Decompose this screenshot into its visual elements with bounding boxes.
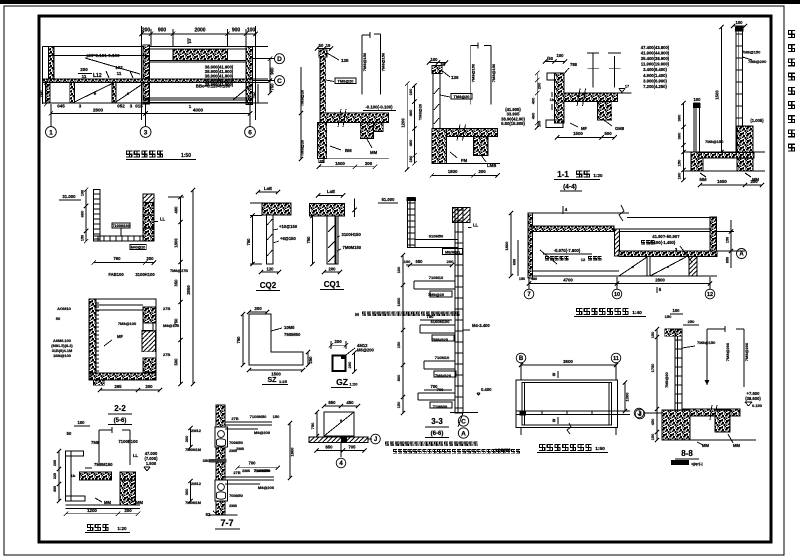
svg-text:7: 7 bbox=[527, 292, 531, 298]
J right dim bbox=[353, 353, 355, 372]
svg-text:10: 10 bbox=[614, 292, 620, 298]
svg-text:300: 300 bbox=[184, 436, 189, 443]
C wall outline bbox=[433, 74, 440, 129]
svg-text:400: 400 bbox=[531, 113, 536, 120]
svg-text:200: 200 bbox=[750, 179, 758, 184]
svg-text:51.000: 51.000 bbox=[382, 197, 395, 202]
svg-text:1:20: 1:20 bbox=[349, 382, 358, 387]
svg-text:e: e bbox=[667, 264, 670, 269]
H right ext line bbox=[354, 199, 356, 218]
E tall wall outline bbox=[736, 27, 743, 152]
svg-text:16M@100: 16M@100 bbox=[53, 353, 71, 358]
svg-text:27B: 27B bbox=[163, 306, 170, 311]
axis circle 1 bbox=[46, 127, 57, 138]
F lower box outline bbox=[91, 299, 156, 380]
svg-text:600: 600 bbox=[513, 259, 517, 265]
svg-text:015: 015 bbox=[135, 104, 143, 109]
F upper wall rungs bbox=[94, 193, 100, 195]
svg-text:045: 045 bbox=[57, 104, 65, 109]
77 right dim bbox=[289, 423, 291, 478]
H top hatch band bbox=[309, 204, 344, 216]
C rebar bracket 1 bbox=[470, 45, 472, 104]
O break mark bottom bbox=[567, 423, 571, 434]
svg-text:(1.005): (1.005) bbox=[750, 118, 764, 123]
D slab break marks bbox=[577, 89, 580, 106]
svg-text:7M8@20: 7M8@20 bbox=[664, 372, 669, 388]
N top line bbox=[528, 212, 629, 214]
svg-text:LaE: LaE bbox=[327, 189, 335, 194]
svg-text:L2@200: L2@200 bbox=[495, 447, 511, 452]
O mid band ticks bbox=[541, 411, 543, 415]
O balcony rect inner bbox=[522, 383, 612, 426]
svg-text:1000: 1000 bbox=[396, 298, 401, 307]
svg-text:500: 500 bbox=[604, 131, 612, 136]
svg-text:27B: 27B bbox=[233, 470, 240, 475]
B wall hatched column bbox=[320, 57, 326, 123]
N axis extensions bbox=[528, 277, 530, 289]
svg-text:1750: 1750 bbox=[650, 364, 655, 373]
svg-text:400: 400 bbox=[408, 109, 413, 116]
svg-text:19: 19 bbox=[326, 43, 331, 48]
F upper col inner lines bbox=[143, 214, 154, 216]
svg-text:FM: FM bbox=[461, 158, 468, 163]
svg-text:6: 6 bbox=[248, 129, 252, 136]
I left dim bbox=[242, 314, 244, 365]
svg-text:3100H150: 3100H150 bbox=[342, 232, 362, 237]
svg-text:2000: 2000 bbox=[194, 28, 205, 34]
svg-text:300: 300 bbox=[677, 114, 682, 121]
P rebar bracket right 2 bbox=[743, 329, 745, 387]
B rebar bracket 2 bbox=[380, 34, 382, 95]
svg-text:LL: LL bbox=[473, 223, 479, 228]
P wall double line bbox=[675, 329, 682, 410]
svg-text:11: 11 bbox=[613, 356, 619, 362]
svg-text:200: 200 bbox=[334, 339, 342, 344]
F lower left wall rungs bbox=[96, 302, 99, 304]
plan extension verticals bbox=[141, 26, 143, 120]
E tall wall cap bbox=[735, 27, 744, 32]
F upper bottom dim bbox=[94, 262, 154, 264]
N left wall strip bbox=[528, 213, 533, 278]
svg-text:J: J bbox=[637, 411, 640, 417]
svg-text:1:50: 1:50 bbox=[181, 153, 191, 159]
svg-text:200: 200 bbox=[254, 306, 262, 311]
I right dim 250 bbox=[307, 352, 309, 365]
svg-text:MM: MM bbox=[104, 500, 111, 505]
C bottom dim bbox=[432, 174, 498, 176]
77 beam block 1 bbox=[215, 427, 228, 447]
svg-text:(6-6): (6-6) bbox=[431, 431, 444, 437]
svg-text:200: 200 bbox=[347, 361, 352, 368]
svg-text:100: 100 bbox=[408, 155, 413, 162]
svg-text:900: 900 bbox=[270, 67, 275, 75]
title 1-1 text bbox=[576, 171, 582, 178]
svg-text:120: 120 bbox=[267, 267, 275, 272]
svg-text:1:25: 1:25 bbox=[279, 379, 288, 384]
svg-text:750: 750 bbox=[39, 90, 44, 98]
svg-text:q|qr(-|: q|qr(-| bbox=[691, 461, 702, 466]
svg-text:7M8@150: 7M8@150 bbox=[381, 52, 386, 71]
svg-text:750: 750 bbox=[310, 422, 315, 429]
M left dim 750 bbox=[316, 412, 318, 436]
B slab break marks bbox=[338, 109, 341, 127]
svg-text:B: B bbox=[552, 418, 555, 423]
svg-text:200: 200 bbox=[146, 256, 154, 261]
svg-text:TM8@20: TM8@20 bbox=[300, 139, 305, 156]
svg-text:MM: MM bbox=[733, 443, 740, 448]
svg-text:200: 200 bbox=[142, 28, 151, 34]
F left dim small bbox=[85, 190, 87, 242]
L bottom line bbox=[66, 504, 141, 506]
N top hatch band bbox=[532, 226, 614, 232]
K top L wall bbox=[408, 198, 416, 248]
G top line bbox=[250, 202, 291, 204]
C slab drop block bbox=[473, 137, 488, 156]
svg-text:1200: 1200 bbox=[87, 508, 97, 513]
svg-text:2650: 2650 bbox=[186, 285, 191, 295]
G bottom dim bbox=[261, 271, 279, 273]
svg-text:M6@200: M6@200 bbox=[357, 348, 375, 353]
svg-text:TM8@20: TM8@20 bbox=[454, 94, 470, 99]
B foundation wall hatch bbox=[317, 123, 326, 159]
svg-text:4.900(1.400): 4.900(1.400) bbox=[643, 73, 667, 78]
O mid band bbox=[516, 410, 630, 412]
svg-text:750: 750 bbox=[306, 236, 311, 244]
axis circle D bbox=[275, 54, 285, 64]
svg-text:7M8@150: 7M8@150 bbox=[705, 139, 724, 144]
svg-text:1.500: 1.500 bbox=[146, 461, 157, 466]
svg-text:750: 750 bbox=[246, 238, 251, 246]
P left dim column bbox=[656, 329, 658, 440]
F lower right diag block bbox=[142, 330, 155, 352]
svg-text:7M8@100: 7M8@100 bbox=[118, 321, 137, 326]
svg-text:100: 100 bbox=[677, 172, 682, 179]
svg-text:11.900(19.900): 11.900(19.900) bbox=[641, 62, 670, 67]
L nabla bbox=[144, 466, 150, 468]
svg-text:17: 17 bbox=[625, 85, 629, 89]
F upper right hatch column bbox=[143, 203, 154, 242]
F bottom dim bbox=[100, 389, 160, 391]
svg-text:MM: MM bbox=[700, 177, 707, 182]
svg-text:2M8: 2M8 bbox=[229, 503, 238, 508]
E wall rung marks bbox=[736, 33, 743, 35]
K tall wall double line bbox=[455, 208, 463, 414]
svg-text:7100B100: 7100B100 bbox=[118, 439, 138, 444]
svg-text:5.80(15.805): 5.80(15.805) bbox=[501, 121, 525, 126]
svg-text:TM8@20: TM8@20 bbox=[300, 89, 305, 106]
svg-text:150: 150 bbox=[81, 235, 85, 241]
N axis circle 10 bbox=[612, 289, 622, 299]
B labels M bbox=[330, 146, 341, 150]
B right tall dim 1200 bbox=[406, 84, 408, 170]
O bottom ext lines bbox=[520, 428, 522, 436]
svg-text:7M0M50: 7M0M50 bbox=[254, 468, 270, 473]
right wall hatch column bbox=[246, 46, 253, 104]
N bottom dim line bbox=[529, 283, 710, 285]
left wall vertical line bbox=[42, 46, 44, 104]
svg-text:250: 250 bbox=[308, 356, 313, 364]
B cap box bbox=[319, 50, 327, 57]
K top leg boxed label bbox=[443, 249, 463, 255]
B leader to wall bbox=[326, 80, 334, 82]
E mid wall bbox=[694, 103, 700, 152]
svg-text:480: 480 bbox=[531, 277, 537, 281]
plan top dimension line bbox=[142, 33, 256, 35]
svg-text:450: 450 bbox=[346, 400, 354, 405]
B bottom line bbox=[317, 158, 389, 160]
svg-text:100: 100 bbox=[247, 28, 256, 34]
svg-text:1800: 1800 bbox=[174, 238, 179, 248]
C rebar bracket 2 bbox=[490, 45, 492, 104]
F upper boxed label below bbox=[130, 244, 146, 249]
svg-text:M8@100: M8@100 bbox=[163, 323, 180, 328]
H wall diagonals bbox=[328, 224, 336, 232]
I L shape bbox=[249, 314, 303, 365]
B slab drop block bbox=[360, 123, 383, 132]
L L-wall vertical bbox=[66, 451, 72, 501]
svg-text:710M10: 710M10 bbox=[435, 355, 450, 360]
N axis circle 12 bbox=[705, 289, 715, 299]
svg-text:100: 100 bbox=[694, 97, 702, 102]
svg-text:150: 150 bbox=[665, 314, 672, 319]
D slab hatch bbox=[564, 93, 618, 102]
svg-text:2M8: 2M8 bbox=[236, 446, 245, 451]
svg-text:LL: LL bbox=[160, 217, 166, 222]
axis extension lines bbox=[50, 104, 52, 127]
svg-text:150: 150 bbox=[726, 237, 730, 243]
N right wall strip bbox=[710, 217, 717, 254]
svg-text:2800: 2800 bbox=[655, 278, 665, 283]
L foundation hatch bbox=[120, 480, 136, 505]
svg-text:LMB: LMB bbox=[487, 163, 496, 168]
N left dims bbox=[510, 213, 512, 276]
svg-text:MM: MM bbox=[136, 500, 143, 505]
O axis circle 11 bbox=[611, 353, 621, 363]
N cell wall small bbox=[689, 257, 697, 277]
svg-text:e: e bbox=[340, 418, 343, 423]
svg-text:7M0M1M: 7M0M1M bbox=[185, 448, 201, 452]
vertical dim right small bbox=[257, 84, 259, 103]
svg-text:1: 1 bbox=[189, 104, 192, 109]
L gap and block hatch bbox=[120, 472, 136, 493]
svg-text:900: 900 bbox=[158, 28, 167, 34]
svg-text:710M10: 710M10 bbox=[429, 275, 444, 280]
svg-text:(50: (50 bbox=[547, 56, 554, 61]
svg-text:300: 300 bbox=[677, 132, 682, 139]
slash marks row bbox=[106, 71, 109, 78]
svg-text:50: 50 bbox=[319, 43, 324, 48]
svg-text:CQ1: CQ1 bbox=[324, 280, 341, 289]
svg-text:1800: 1800 bbox=[504, 241, 509, 251]
D drop block bbox=[597, 102, 611, 121]
P wall rungs bbox=[675, 339, 682, 341]
svg-text:102: 102 bbox=[115, 65, 123, 70]
svg-text:1:20: 1:20 bbox=[117, 526, 127, 531]
svg-text:265: 265 bbox=[114, 384, 122, 389]
svg-text:M8@200: M8@200 bbox=[254, 430, 271, 435]
svg-text:M8@200: M8@200 bbox=[258, 485, 275, 490]
svg-text:400: 400 bbox=[53, 486, 57, 492]
svg-text:27B: 27B bbox=[231, 416, 238, 421]
svg-text:7M0M150: 7M0M150 bbox=[343, 245, 362, 250]
svg-text:1200: 1200 bbox=[401, 118, 406, 128]
svg-text:1500: 1500 bbox=[715, 90, 720, 100]
left dim 750 bbox=[45, 83, 47, 104]
svg-text:8-8: 8-8 bbox=[681, 449, 693, 458]
77 wall hatch column bbox=[216, 405, 225, 515]
svg-text:135: 135 bbox=[341, 58, 349, 63]
svg-text:850: 850 bbox=[726, 257, 730, 263]
svg-text:BM: BM bbox=[345, 148, 352, 153]
D wall top leg bbox=[547, 73, 563, 80]
right margin column text bbox=[788, 30, 795, 38]
E foundation bottom lines bbox=[684, 170, 766, 172]
right dim vertical bbox=[269, 59, 271, 93]
N title bbox=[576, 308, 582, 315]
F lower left hatch bbox=[89, 299, 96, 380]
svg-text:TM8@20: TM8@20 bbox=[418, 103, 423, 120]
svg-text:750: 750 bbox=[236, 336, 241, 344]
M top dims bbox=[324, 405, 358, 407]
svg-text:7M8@150: 7M8@150 bbox=[742, 50, 761, 55]
svg-text:1: 1 bbox=[49, 129, 53, 136]
B slab hatch bbox=[320, 113, 389, 122]
F big dim column right bbox=[180, 197, 182, 384]
svg-text:100: 100 bbox=[396, 267, 401, 274]
D left dim column bbox=[536, 73, 538, 127]
svg-text:e: e bbox=[632, 264, 635, 269]
svg-text:BBe=0.110-0.160: BBe=0.110-0.160 bbox=[196, 84, 231, 89]
svg-text:700: 700 bbox=[431, 384, 439, 389]
L slab hatch 1 bbox=[80, 472, 112, 480]
svg-text:700M50: 700M50 bbox=[229, 494, 243, 498]
svg-text:100: 100 bbox=[673, 308, 681, 313]
svg-text:200: 200 bbox=[365, 161, 373, 166]
svg-text:C: C bbox=[461, 418, 466, 425]
svg-text:400: 400 bbox=[531, 98, 536, 105]
svg-text:100: 100 bbox=[78, 420, 86, 425]
G top hatch band bbox=[262, 203, 291, 215]
L title bbox=[87, 524, 93, 531]
plan bottom dim line bbox=[51, 112, 250, 114]
left upper interior line bbox=[49, 55, 149, 57]
svg-text:200: 200 bbox=[80, 67, 88, 72]
N row A hatch band bbox=[619, 251, 717, 257]
L left dims rotated bbox=[58, 451, 60, 501]
C left dim column bbox=[413, 86, 415, 164]
svg-text:7M8@200: 7M8@200 bbox=[748, 59, 767, 64]
M circle 4 bbox=[340, 443, 342, 457]
svg-text:TM8@20: TM8@20 bbox=[338, 79, 354, 84]
svg-text:3100H100: 3100H100 bbox=[135, 272, 155, 277]
svg-text:500: 500 bbox=[174, 358, 179, 366]
svg-text:900: 900 bbox=[232, 28, 241, 34]
svg-text:200: 200 bbox=[53, 460, 57, 466]
svg-text:50: 50 bbox=[67, 431, 72, 436]
right axis extensions bbox=[253, 58, 275, 60]
M center black block bbox=[341, 436, 347, 442]
L L-wall top horiz bbox=[66, 451, 84, 456]
lower room diagonal 1 bbox=[74, 84, 112, 102]
svg-text:GZ: GZ bbox=[336, 377, 348, 387]
F below-box hatch bbox=[94, 380, 105, 385]
N break mark bbox=[619, 205, 624, 221]
K left vertical dim bbox=[402, 255, 404, 413]
P slab break marks bbox=[710, 405, 712, 420]
svg-text:1: 1 bbox=[189, 39, 192, 45]
K slab 3 bbox=[420, 324, 455, 326]
svg-text:(4-4): (4-4) bbox=[563, 184, 577, 191]
svg-text:MM: MM bbox=[370, 150, 378, 155]
svg-text:2M8: 2M8 bbox=[229, 448, 238, 453]
L bottom dim bbox=[66, 513, 138, 515]
svg-text:200: 200 bbox=[447, 259, 454, 264]
svg-text:350: 350 bbox=[203, 458, 210, 463]
svg-text:052: 052 bbox=[117, 104, 125, 109]
O circle J right bbox=[635, 409, 645, 419]
M ground hatch band bbox=[309, 437, 368, 443]
svg-text:100: 100 bbox=[736, 20, 744, 25]
F lower inner lines bbox=[96, 304, 143, 306]
bottom wall line bbox=[43, 102, 269, 104]
upper beam hatch band bbox=[173, 49, 228, 61]
P bottom line bbox=[662, 439, 756, 441]
D rebar bracket 2 bbox=[614, 56, 616, 88]
svg-text:3600: 3600 bbox=[563, 359, 573, 364]
svg-text:750: 750 bbox=[252, 91, 257, 98]
svg-text:7M8@150: 7M8@150 bbox=[362, 52, 367, 71]
svg-text:3.400(8.400): 3.400(8.400) bbox=[643, 67, 667, 72]
M circle J bbox=[368, 438, 372, 440]
G left dim bbox=[252, 216, 254, 264]
svg-text:150: 150 bbox=[519, 277, 525, 281]
O top dim bbox=[521, 364, 616, 366]
B bottom small box bbox=[319, 159, 324, 163]
svg-text:2M8: 2M8 bbox=[242, 468, 251, 473]
svg-text:MF: MF bbox=[117, 334, 123, 339]
svg-text:700M50: 700M50 bbox=[229, 441, 243, 445]
svg-text:1650: 1650 bbox=[717, 179, 727, 184]
L L-wall bottom horiz bbox=[66, 496, 86, 501]
77 footing bar bbox=[209, 514, 238, 516]
svg-text:SZ: SZ bbox=[268, 377, 278, 384]
svg-text:31.000: 31.000 bbox=[62, 194, 76, 199]
svg-text:250: 250 bbox=[688, 319, 695, 324]
F upper labels bbox=[112, 223, 130, 228]
F mid dim 2650 tall bbox=[192, 190, 194, 384]
plan top wall line bbox=[43, 45, 269, 47]
svg-text:2M12: 2M12 bbox=[191, 481, 202, 486]
I bottom dim bbox=[249, 369, 303, 371]
M below dims bbox=[317, 450, 365, 452]
L rebar brackets bbox=[98, 430, 100, 465]
svg-text:5: 5 bbox=[659, 287, 662, 292]
svg-text:05: 05 bbox=[320, 160, 324, 164]
svg-text:2800: 2800 bbox=[93, 108, 104, 113]
svg-text:L12: L12 bbox=[93, 73, 102, 79]
77 left dim 2 bbox=[190, 481, 192, 501]
E bottom labels bbox=[700, 173, 706, 177]
svg-text:27B: 27B bbox=[163, 352, 170, 357]
svg-text:850: 850 bbox=[328, 400, 336, 405]
P foundation hatch big bbox=[662, 410, 690, 440]
D wall bottom leg bbox=[546, 120, 563, 127]
G wall below bbox=[267, 215, 274, 264]
svg-text:1800: 1800 bbox=[290, 447, 295, 457]
svg-text:700: 700 bbox=[437, 387, 444, 392]
svg-text:136: 136 bbox=[451, 75, 459, 80]
left exterior wall hatch bbox=[49, 46, 55, 82]
